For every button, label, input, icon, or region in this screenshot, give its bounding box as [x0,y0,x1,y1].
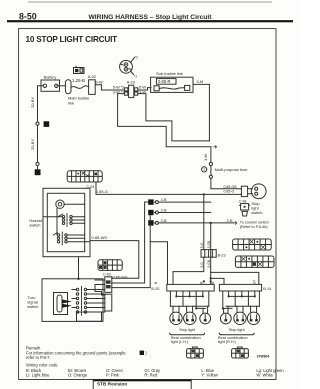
stop light lamp L1 [170,312,182,324]
stop light switch SW1 [248,184,267,215]
page header [7,2,293,23]
stop light lamp R3 [247,312,259,324]
svg-text:O: Orange: O: Orange [68,373,88,378]
svg-text:0.85-G: 0.85-G [96,189,108,194]
svg-text:light (R.H.): light (R.H.) [218,340,237,344]
svg-text:A-02: A-02 [88,74,97,79]
svg-text:*1: *1 [134,75,137,79]
tail lamp R1 [220,313,231,324]
ground symbol 2 [35,169,41,175]
wire ground 7 [158,201,210,203]
connector pin grid B-23 view [233,239,272,250]
svg-text:GT: GT [253,280,257,284]
svg-text:Stop light: Stop light [229,328,246,332]
ground point 1 [148,219,167,226]
connector C-63 [95,273,112,311]
connector B-23 [201,250,226,258]
svg-text:A-23: A-23 [127,79,136,84]
svg-text:5-G: 5-G [200,242,204,248]
connector joint lower [36,162,39,169]
svg-text:Battery: Battery [44,74,57,79]
svg-text:5-W *2: 5-W *2 [113,86,125,90]
wire 3-M from sub fusible link [193,84,209,140]
long wire C-61 to stop light switch (0.85-G) [96,182,241,194]
stop light bracket left [170,328,205,344]
svg-text:(Refer to P.8-46): (Refer to P.8-46) [240,225,269,229]
STB revision box [93,379,191,389]
svg-text:5-G: 5-G [200,262,204,268]
wire A-02 to A-23 (5-W) [95,85,124,90]
svg-text:0.85-GB: 0.85-GB [224,185,238,189]
svg-text:Wiring color code: Wiring color code [26,362,58,367]
hazard switch contacts upper [44,214,85,226]
lamp wiring right [222,291,260,313]
ground point 7 [148,198,167,205]
svg-text:light (L.H.): light (L.H.) [171,340,189,344]
lamp wiring left [170,291,208,313]
svg-text:*2: *2 [135,55,138,59]
connector A-02 [88,74,97,94]
svg-text:Multi-purpose fuse: Multi-purpose fuse [215,167,249,172]
wire battery to main fusible link [58,85,66,87]
wire to B-14 right [211,272,259,284]
battery B1 [41,74,60,91]
wire ground bus to column switch [158,222,233,224]
svg-text:5-W: 5-W [139,86,146,90]
svg-text:C-63: C-63 [103,273,111,277]
hazard switch box [29,188,90,256]
connector B-20 [151,284,214,291]
junction block C-62 grid [98,260,128,280]
svg-text:2-B: 2-B [227,219,233,223]
svg-text:20-BY: 20-BY [30,97,35,108]
svg-text:0.85-R: 0.85-R [158,79,171,84]
svg-text:B: B [200,282,204,284]
svg-text:20-BY: 20-BY [30,139,35,150]
wire stub arrow [213,146,217,148]
wire stop light feed down [173,194,204,284]
ground point 4 [148,209,167,216]
wire staircase from A-23 right pin [138,94,210,141]
svg-text:STB Revision: STB Revision [97,382,127,387]
wire ground feed down [211,223,224,285]
svg-text:link: link [68,100,74,105]
svg-text:5-W: 5-W [95,80,103,85]
svg-text:B-20: B-20 [151,287,159,291]
stop light lamp L2 [184,312,196,324]
turn signal lever [54,293,73,315]
svg-text:0.85-WG: 0.85-WG [92,235,108,240]
svg-text:W: White: W: White [256,373,273,378]
multi-purpose fuse F7 [202,162,249,178]
svg-text:1.25-B: 1.25-B [72,78,85,83]
turn signal switch box [27,257,103,322]
rear connector icon right [232,347,249,358]
svg-text:5-GB: 5-GB [207,260,211,267]
tail lamp L3 [200,313,211,324]
wire staircase from A-23 left pin down to fuse [118,94,211,163]
svg-text:switch: switch [29,222,40,227]
svg-text:Stop light: Stop light [179,328,196,332]
wire ground 4 drop to C-63 [112,215,150,287]
svg-text:2-B: 2-B [161,198,167,202]
svg-text:0.85-WG: 0.85-WG [113,276,128,280]
wavy wire main fusible link to A-02 [71,86,89,89]
hazard indicator lamp [56,200,85,208]
connector A-23 [125,79,138,97]
svg-text:3-M: 3-M [196,79,203,84]
svg-text:B-23: B-23 [218,254,226,258]
junction dot [210,222,212,224]
svg-text:Sub fusible link: Sub fusible link [156,71,183,76]
wire ground 7 drop to C-63 [112,202,148,283]
svg-text:C-98: C-98 [239,199,247,203]
ground point label 1 [44,121,50,127]
main fusible link capsule [65,80,71,94]
remark text [26,346,284,378]
rear connector icon left [187,347,204,358]
label Main fusible link [68,96,90,106]
svg-text:switch: switch [251,210,262,215]
svg-text:37W804: 37W804 [257,354,270,358]
turn signal contacts [72,287,105,316]
figure border frame [19,29,276,380]
svg-text:refer to P.8-7.: refer to P.8-7. [26,355,51,360]
svg-text:3-M: 3-M [204,154,208,161]
wire branch to B-20 [150,242,167,285]
svg-text:8-50: 8-50 [19,11,37,21]
wire 0.85-WG hazard to C-63 [90,241,139,279]
connector joint on 20-BY wire [36,122,39,126]
arrow to column switch [234,222,237,225]
svg-text:R: Red: R: Red [144,373,157,378]
junction block C-61 grid [67,171,108,194]
turn signal sub-box [77,312,102,321]
wire fuse to stop light switch (0.85-GB) [211,178,242,188]
wire 20-BY lower [37,126,39,162]
stop light switch connector [241,186,247,196]
stop light lamp R2 [234,312,246,324]
svg-text:switch: switch [27,304,38,309]
svg-text:B: B [154,282,158,284]
svg-text:WIRING HARNESS – Stop Light Ci: WIRING HARNESS – Stop Light Circuit [89,14,213,21]
svg-text:Y: Yellow: Y: Yellow [201,373,217,378]
wire ground 4 [158,212,210,214]
wire battery to ground (20-BY) [38,86,44,122]
connector pin grid B-20/B-14 view [235,256,274,267]
connector B-14 [219,284,271,291]
svg-text:1: 1 [141,351,143,355]
hazard switch contacts lower [53,208,90,244]
wire A-23 to sub fusible link [138,88,151,90]
svg-text:5-GB: 5-GB [207,241,211,248]
connector C-98 below switch [239,199,250,216]
svg-text:P: Pink: P: Pink [106,373,120,378]
svg-text:LI: Light blue: LI: Light blue [26,373,50,378]
svg-text:0.85-G: 0.85-G [224,190,235,194]
connector A-23 pin view circle [120,55,139,78]
stop light bracket right [218,328,254,344]
ground icon legend [74,66,85,73]
sub fusible link box [151,71,193,92]
svg-text:B-14: B-14 [263,287,271,291]
svg-text:10 STOP LIGHT CIRCUIT: 10 STOP LIGHT CIRCUIT [26,35,118,44]
